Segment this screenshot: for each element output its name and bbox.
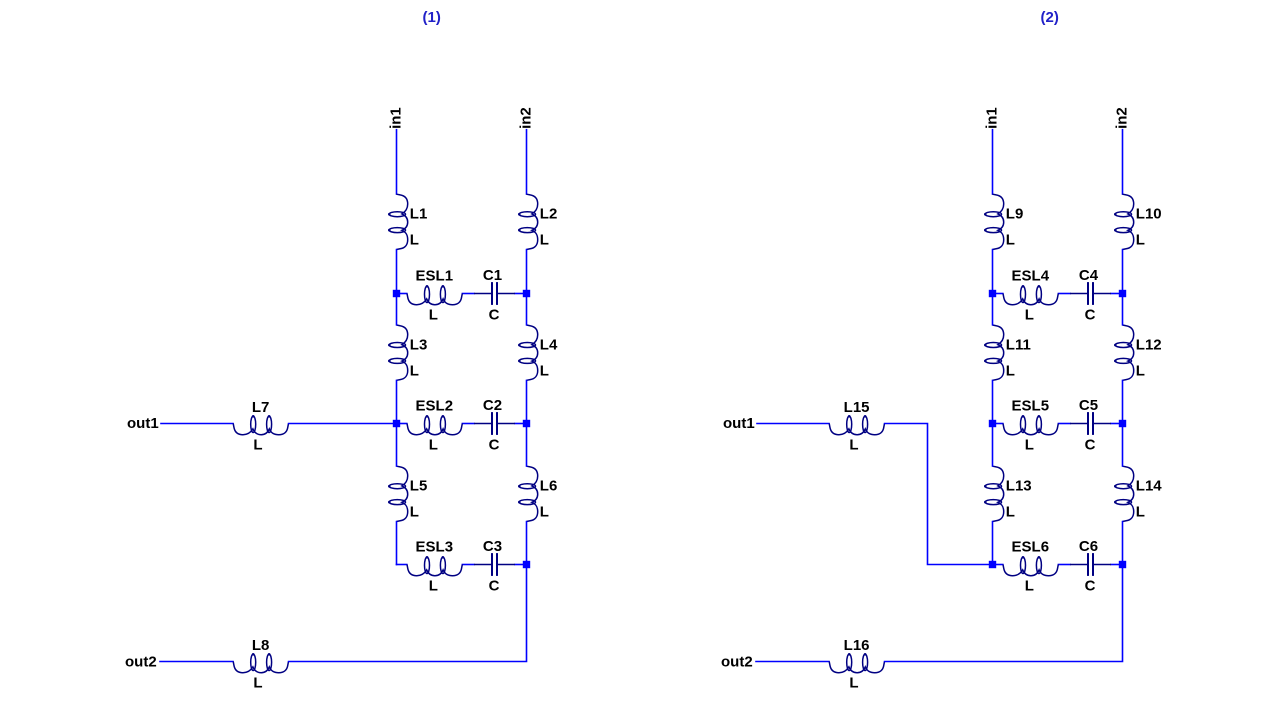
svg-text:L: L (253, 675, 262, 692)
wire (515, 293, 527, 295)
svg-text:L: L (540, 504, 549, 521)
wire (1122, 380, 1124, 423)
wire (885, 424, 993, 565)
svg-text:L: L (540, 232, 549, 249)
svg-text:in2: in2 (517, 107, 534, 129)
wire (1058, 293, 1070, 295)
svg-text:C4: C4 (1079, 267, 1099, 284)
svg-text:ESL1: ESL1 (416, 268, 454, 285)
junction (523, 420, 530, 427)
junction (393, 420, 400, 427)
svg-text:L15: L15 (844, 399, 870, 416)
wire (526, 380, 528, 423)
wire (515, 423, 527, 425)
wire (992, 130, 994, 194)
wire (1122, 424, 1124, 467)
svg-text:L13: L13 (1006, 478, 1032, 495)
svg-text:out2: out2 (125, 654, 157, 671)
wire (396, 424, 398, 467)
svg-text:L: L (1136, 232, 1145, 249)
svg-text:L9: L9 (1006, 206, 1024, 223)
wire (992, 522, 994, 565)
svg-text:L12: L12 (1136, 336, 1162, 353)
svg-text:C: C (1085, 437, 1096, 454)
svg-text:L: L (429, 578, 438, 595)
wire (397, 423, 407, 425)
inductor L9 (984, 194, 1023, 249)
junction (393, 290, 400, 297)
wire (515, 564, 527, 566)
svg-text:C1: C1 (483, 267, 502, 284)
wire (992, 424, 994, 467)
junction (1119, 561, 1126, 568)
svg-text:L3: L3 (410, 336, 428, 353)
wire (992, 250, 994, 294)
inductor L6 (518, 466, 557, 521)
wire (526, 250, 528, 294)
inductor L8 (233, 637, 288, 692)
capacitor C5 (1070, 397, 1111, 454)
wire (1122, 294, 1124, 325)
junction (1119, 420, 1126, 427)
wire (885, 565, 1123, 662)
svg-text:C: C (1085, 578, 1096, 595)
inductor L16 (829, 637, 884, 692)
svg-text:L11: L11 (1006, 336, 1031, 353)
wire (1111, 564, 1123, 566)
svg-text:in1: in1 (387, 107, 404, 129)
wire (396, 294, 398, 325)
capacitor C4 (1070, 267, 1111, 324)
svg-text:C2: C2 (483, 397, 502, 414)
svg-text:L: L (1025, 578, 1034, 595)
wire (1058, 564, 1070, 566)
wire (993, 564, 1003, 566)
svg-text:out2: out2 (721, 654, 753, 671)
svg-text:in2: in2 (1113, 107, 1130, 129)
svg-text:out1: out1 (127, 415, 159, 432)
svg-text:L2: L2 (540, 206, 558, 223)
wire (462, 293, 474, 295)
svg-text:(2): (2) (1041, 9, 1059, 26)
wire (462, 423, 474, 425)
svg-text:L7: L7 (252, 399, 270, 416)
inductor ESL5 (1003, 398, 1058, 454)
svg-text:L: L (410, 362, 419, 379)
inductor L4 (518, 325, 558, 380)
svg-text:L: L (429, 307, 438, 324)
wire (992, 380, 994, 423)
junction (1119, 290, 1126, 297)
svg-text:ESL4: ESL4 (1012, 268, 1050, 285)
wire (526, 522, 528, 565)
inductor L5 (388, 466, 427, 521)
wire (526, 424, 528, 467)
inductor L13 (984, 466, 1032, 521)
svg-text:L: L (1025, 437, 1034, 454)
capacitor C3 (474, 538, 515, 595)
svg-text:L: L (253, 437, 262, 454)
svg-text:L: L (1136, 504, 1145, 521)
inductor L7 (233, 399, 288, 454)
svg-text:L: L (540, 362, 549, 379)
svg-text:L: L (1006, 232, 1015, 249)
wire (757, 423, 829, 425)
svg-text:L: L (849, 675, 858, 692)
svg-text:C: C (1085, 307, 1096, 324)
svg-text:ESL3: ESL3 (416, 539, 454, 556)
svg-text:out1: out1 (723, 415, 755, 432)
wire (160, 661, 233, 663)
junction (989, 420, 996, 427)
inductor L10 (1114, 194, 1162, 249)
wire (161, 423, 233, 425)
junction (989, 561, 996, 568)
svg-text:L14: L14 (1136, 478, 1163, 495)
capacitor C6 (1070, 538, 1111, 595)
inductor ESL3 (407, 539, 462, 595)
svg-text:C6: C6 (1079, 538, 1098, 555)
svg-text:L: L (1006, 504, 1015, 521)
svg-text:L: L (849, 437, 858, 454)
svg-text:L: L (1025, 307, 1034, 324)
inductor L12 (1114, 325, 1162, 380)
svg-text:L: L (1136, 362, 1145, 379)
capacitor C1 (474, 267, 515, 324)
wire (397, 564, 407, 566)
inductor L14 (1114, 466, 1162, 521)
svg-text:L16: L16 (844, 637, 870, 654)
svg-text:L: L (410, 504, 419, 521)
capacitor C2 (474, 397, 515, 454)
inductor L3 (388, 325, 427, 380)
wire (1111, 423, 1123, 425)
svg-text:C: C (489, 578, 500, 595)
svg-text:in1: in1 (983, 107, 1000, 129)
inductor L11 (984, 325, 1031, 380)
inductor ESL4 (1003, 268, 1058, 324)
svg-text:ESL2: ESL2 (416, 398, 454, 415)
wire (396, 522, 398, 565)
inductor ESL1 (407, 268, 462, 324)
wire (1058, 423, 1070, 425)
svg-text:L6: L6 (540, 478, 558, 495)
svg-text:L1: L1 (410, 206, 428, 223)
inductor ESL6 (1003, 539, 1058, 595)
wire (526, 130, 528, 194)
inductor L2 (518, 194, 557, 249)
wire (992, 294, 994, 325)
wire (289, 423, 397, 425)
wire (1111, 293, 1123, 295)
svg-text:C3: C3 (483, 538, 502, 555)
wire (1122, 130, 1124, 194)
inductor ESL2 (407, 398, 462, 454)
wire (396, 380, 398, 423)
junction (989, 290, 996, 297)
svg-text:(1): (1) (423, 9, 441, 26)
wire (526, 294, 528, 325)
wire (462, 564, 474, 566)
svg-text:L: L (410, 232, 419, 249)
wire (756, 661, 829, 663)
svg-text:C: C (489, 307, 500, 324)
inductor L1 (388, 194, 427, 249)
svg-text:C5: C5 (1079, 397, 1098, 414)
wire (396, 130, 398, 194)
svg-text:ESL6: ESL6 (1012, 539, 1050, 556)
svg-text:C: C (489, 437, 500, 454)
svg-text:L4: L4 (540, 336, 558, 353)
wire (1122, 522, 1124, 565)
wire (289, 565, 527, 662)
wire (993, 423, 1003, 425)
wire (993, 293, 1003, 295)
wire (397, 293, 407, 295)
svg-text:L: L (1006, 362, 1015, 379)
svg-text:L8: L8 (252, 637, 270, 654)
svg-text:L10: L10 (1136, 206, 1162, 223)
junction (523, 561, 530, 568)
junction (523, 290, 530, 297)
svg-text:ESL5: ESL5 (1012, 398, 1050, 415)
svg-text:L: L (429, 437, 438, 454)
wire (396, 250, 398, 294)
svg-text:L5: L5 (410, 478, 428, 495)
wire (1122, 250, 1124, 294)
inductor L15 (829, 399, 884, 454)
